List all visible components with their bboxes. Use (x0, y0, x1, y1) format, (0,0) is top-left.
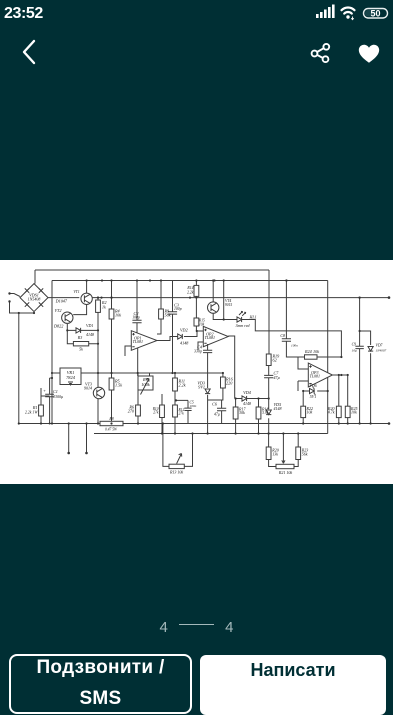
svg-text:56k: 56k (165, 313, 171, 318)
svg-text:9V1: 9V1 (198, 385, 205, 390)
svg-text:10k: 10k (351, 410, 357, 415)
svg-text:4148: 4148 (243, 401, 251, 406)
svg-text:30k: 30k (239, 410, 245, 415)
svg-text:+: + (43, 388, 46, 393)
svg-text:3.9k: 3.9k (262, 410, 269, 415)
svg-text:1N5408: 1N5408 (28, 297, 41, 302)
svg-text:270: 270 (128, 409, 135, 414)
svg-text:1.5k: 1.5k (115, 383, 122, 388)
svg-text:27k: 27k (179, 412, 185, 416)
svg-text:C9: C9 (352, 343, 357, 347)
svg-text:4148: 4148 (180, 341, 189, 346)
svg-text:VD1: VD1 (86, 323, 93, 328)
svg-text:R24: R24 (304, 349, 312, 354)
svg-text:100p: 100p (174, 307, 182, 311)
svg-text:TL081: TL081 (310, 374, 320, 379)
svg-text:10k: 10k (199, 322, 205, 326)
svg-text:4148: 4148 (274, 406, 282, 411)
svg-text:10k: 10k (115, 313, 121, 318)
svg-text:VT1: VT1 (73, 290, 79, 294)
svg-text:50: 50 (370, 9, 380, 19)
svg-text:D822: D822 (53, 324, 63, 329)
svg-text:100p: 100p (132, 316, 140, 320)
svg-text:HL1: HL1 (249, 315, 257, 320)
svg-text:100n: 100n (190, 404, 197, 408)
svg-text:C6: C6 (212, 402, 218, 407)
svg-text:5V1: 5V1 (310, 394, 316, 399)
svg-text:10µ: 10µ (352, 349, 357, 353)
svg-text:R13 10k: R13 10k (169, 470, 183, 475)
svg-text:2.2k 1W: 2.2k 1W (25, 410, 38, 414)
svg-text:VD2: VD2 (180, 328, 188, 333)
svg-text:10k: 10k (307, 410, 313, 415)
svg-text:330p: 330p (194, 349, 202, 354)
svg-text:27k: 27k (153, 411, 159, 415)
svg-text:10k: 10k (313, 349, 319, 354)
svg-text:47µ: 47µ (274, 375, 280, 380)
svg-text:VD6: VD6 (309, 383, 316, 388)
svg-text:C8: C8 (280, 333, 285, 338)
svg-text:13k: 13k (272, 452, 278, 457)
svg-text:R14: R14 (186, 286, 193, 290)
svg-text:5k: 5k (79, 347, 83, 352)
svg-text:100n: 100n (291, 344, 298, 348)
svg-text:TL081: TL081 (205, 335, 215, 340)
svg-text:3300µ: 3300µ (53, 394, 63, 399)
svg-text:4148: 4148 (86, 332, 94, 337)
svg-text:9015: 9015 (225, 303, 232, 307)
svg-text:VD7: VD7 (376, 344, 384, 348)
svg-text:2.2k: 2.2k (179, 383, 186, 388)
svg-text:R3: R3 (77, 335, 82, 340)
svg-text:1N4007: 1N4007 (376, 349, 387, 353)
svg-text:62: 62 (273, 358, 277, 363)
svg-text:0.47 5W: 0.47 5W (105, 428, 118, 432)
svg-text:R21 10k: R21 10k (278, 470, 292, 475)
svg-text:VD4: VD4 (243, 390, 251, 395)
svg-text:47µ: 47µ (214, 413, 220, 417)
svg-text:220: 220 (226, 381, 233, 386)
svg-text:R8: R8 (108, 417, 113, 421)
svg-text:9014: 9014 (84, 386, 92, 391)
svg-text:2.2k: 2.2k (187, 291, 194, 295)
svg-text:D1047: D1047 (55, 299, 68, 304)
svg-text:56k: 56k (302, 452, 308, 457)
svg-text:100k: 100k (141, 382, 151, 387)
svg-text:7824: 7824 (66, 375, 76, 380)
svg-text:R1: R1 (32, 405, 38, 410)
svg-text:TL081: TL081 (133, 339, 143, 344)
svg-text:VT2: VT2 (55, 308, 62, 313)
svg-text:1k: 1k (102, 304, 106, 309)
svg-text:3mm red: 3mm red (236, 323, 251, 328)
svg-text:4.7k: 4.7k (328, 410, 335, 415)
